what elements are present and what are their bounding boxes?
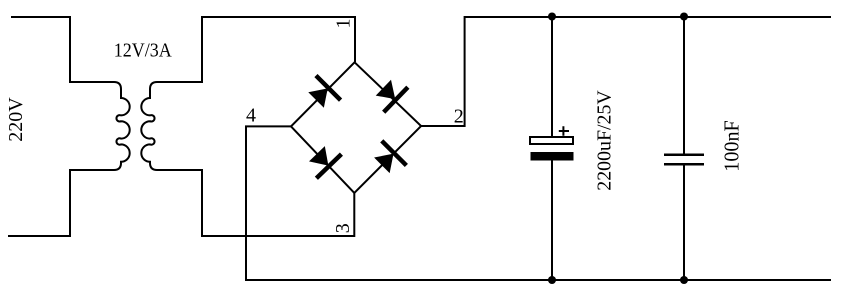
capacitor C1 positive plate (hollow) (530, 137, 573, 144)
wire: secondary bottom to bridge node 3 (177, 170, 354, 236)
capacitor C1 top lead (551, 17, 553, 137)
wire: AC input bottom lead to primary (8, 170, 93, 236)
capacitor C1 bottom lead (551, 160, 553, 280)
capacitor C2 top lead (683, 17, 685, 154)
transformer T1 secondary winding (141, 82, 177, 170)
capacitor C2 plates (664, 154, 704, 157)
svg-text:4: 4 (246, 105, 256, 127)
capacitor C1 plus sign (559, 126, 569, 135)
capacitor C2 bottom lead (683, 166, 685, 281)
bridge rectifier diamond wires (291, 62, 421, 193)
diode D3 (node 4 to node 3, bottom-left) (304, 142, 343, 180)
svg-text:1: 1 (332, 19, 354, 29)
svg-text:3: 3 (332, 223, 354, 233)
wire: node 4 to bottom negative rail (246, 126, 831, 280)
diode D4 (node 3 to node 2, bottom-right) (370, 139, 408, 177)
junction dot: C2 bottom (680, 276, 688, 284)
junction dot: C1 top (548, 13, 556, 21)
junction dot: C2 top (680, 13, 688, 21)
svg-text:2200uF/25V: 2200uF/25V (594, 90, 616, 191)
wire: secondary top to bridge node 1 (177, 17, 355, 82)
junction dot: C1 bottom (548, 276, 556, 284)
transformer T1 primary winding (93, 82, 130, 170)
svg-text:2: 2 (454, 106, 464, 128)
svg-text:100nF: 100nF (721, 120, 744, 172)
diode D2 (node 1 to node 2, top-right) (371, 75, 409, 114)
svg-text:220V: 220V (5, 97, 27, 142)
wire: node 2 to top positive rail (421, 17, 831, 126)
wire: AC input top lead to primary (11, 17, 93, 82)
svg-text:12V/3A: 12V/3A (114, 40, 172, 62)
capacitor C1 negative plate (filled) (531, 152, 574, 161)
diode D1 (node 4 to node 1, top-left) (304, 74, 342, 112)
